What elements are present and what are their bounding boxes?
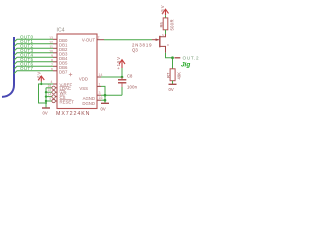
svg-text:100n: 100n — [127, 84, 138, 89]
svg-text:+5V: +5V — [160, 5, 165, 15]
svg-text:7: 7 — [51, 63, 53, 67]
junction dot VDD/+15V/C8 — [121, 76, 124, 79]
pin stub V-OUT — [97, 39, 104, 41]
svg-text:+15V: +15V — [116, 57, 121, 70]
wire OUT7 — [14, 71, 53, 74]
junction dot V-REF corner — [40, 83, 42, 85]
pin stubs DB0-DB7 — [53, 39, 57, 71]
IC origin cross — [69, 73, 72, 76]
svg-text:16: 16 — [99, 96, 103, 100]
label stub OUT.2 — [175, 57, 181, 59]
svg-text:+5V: +5V — [36, 72, 41, 82]
inversion bubbles LDAC WR CS RESET — [52, 86, 55, 103]
svg-text:11: 11 — [49, 45, 53, 49]
wire VSS to ground rail — [101, 86, 105, 103]
svg-text:2: 2 — [98, 36, 100, 40]
svg-text:0V: 0V — [169, 87, 174, 92]
svg-text:1: 1 — [99, 82, 101, 86]
pin stub AGND — [97, 94, 101, 96]
wire +5V to V-REF pin — [41, 82, 53, 85]
pin names DB0..DB7 — [59, 38, 68, 75]
svg-text:RESET: RESET — [60, 99, 75, 104]
svg-text:12: 12 — [49, 40, 53, 44]
svg-text:OUT.2: OUT.2 — [183, 55, 199, 60]
capacitor C8 — [121, 77, 123, 79]
svg-text:500R: 500R — [169, 20, 174, 31]
svg-text:8: 8 — [51, 58, 53, 62]
svg-text:C8: C8 — [127, 74, 133, 79]
svg-text:5: 5 — [49, 97, 51, 101]
junction dot rail bottom joint — [45, 102, 47, 104]
svg-text:Jig: Jig — [181, 61, 190, 68]
wire rail LDAC/WR/CS/RESET — [46, 88, 52, 108]
svg-text:0V: 0V — [43, 111, 48, 116]
svg-text:MX7224KN: MX7224KN — [56, 111, 90, 117]
wire OUT6 — [14, 66, 53, 69]
pin stub VSS — [97, 85, 101, 87]
pin numbers 13..6 — [49, 36, 53, 72]
wire OUT2 — [14, 48, 53, 51]
junction dot AGND — [104, 94, 107, 97]
svg-text:10: 10 — [49, 49, 53, 53]
pin stub V-REF — [53, 83, 57, 85]
wire OUT1 — [14, 44, 53, 47]
ground 0V right — [169, 83, 177, 85]
svg-text:14: 14 — [48, 93, 52, 97]
junction dots on rail — [45, 91, 47, 102]
svg-text:VDD: VDD — [79, 76, 88, 81]
wire +5V loop to rail bottom — [39, 84, 47, 103]
svg-text:16: 16 — [48, 84, 52, 88]
wire OUT5 — [14, 62, 53, 65]
supply +5V right arrow — [163, 9, 169, 15]
gate arrowhead — [156, 38, 160, 41]
svg-text:S: S — [162, 33, 164, 37]
wire Q3 drain to OUT.2 node — [166, 53, 173, 69]
pin numbers LDAC WR CS RESET — [48, 84, 52, 101]
wire OUT0 — [14, 39, 53, 42]
svg-text:R6: R6 — [159, 21, 164, 27]
wire R6 to Q3 — [165, 30, 167, 34]
svg-text:6: 6 — [51, 67, 53, 71]
supply +5V left arrow — [38, 76, 44, 82]
svg-text:3: 3 — [99, 91, 101, 95]
svg-text:DB7: DB7 — [59, 69, 68, 74]
svg-text:0V: 0V — [101, 107, 106, 112]
svg-text:V-OUT: V-OUT — [82, 37, 96, 42]
junction dot DGND — [104, 99, 107, 102]
wire C8 to AGND — [121, 87, 123, 95]
pin stubs LDAC WR CS RESET — [55, 88, 57, 101]
svg-text:R7: R7 — [166, 72, 171, 78]
resistor R7 — [170, 69, 175, 81]
svg-text:D: D — [167, 43, 169, 47]
svg-text:14: 14 — [99, 73, 103, 77]
wire DGND to ground rail — [101, 99, 105, 101]
svg-text:IC4: IC4 — [57, 28, 65, 34]
wire OUT4 — [14, 57, 53, 60]
ground 0V middle — [101, 102, 109, 104]
svg-text:13: 13 — [49, 36, 53, 40]
svg-text:DGND: DGND — [82, 101, 95, 106]
svg-text:VSS: VSS — [79, 86, 88, 91]
supply +15V arrow — [119, 60, 125, 68]
pin stub VDD — [97, 76, 101, 78]
transistor Q3 2N3819 — [152, 34, 166, 53]
svg-text:9: 9 — [51, 54, 53, 58]
wire OUT3 — [14, 53, 53, 56]
resistor R6 — [163, 18, 168, 30]
wire AGND to C8 return — [101, 94, 122, 96]
svg-text:15: 15 — [48, 88, 52, 92]
wire R7 to ground — [172, 81, 174, 84]
pin stub DGND — [97, 99, 101, 101]
bus OUT[0..7] — [2, 37, 14, 97]
IC IC4 MX7224KN box — [57, 34, 97, 109]
svg-text:OUT7: OUT7 — [20, 66, 33, 71]
svg-text:49K: 49K — [176, 72, 181, 80]
wire VDD to +15V — [101, 68, 122, 77]
wire +5V to R6 — [165, 15, 167, 18]
wire V-OUT to Q3 gate — [104, 39, 152, 41]
ground 0V left — [42, 107, 50, 109]
junction dot OUT.2 node — [171, 56, 174, 59]
svg-text:Q3: Q3 — [132, 48, 138, 53]
